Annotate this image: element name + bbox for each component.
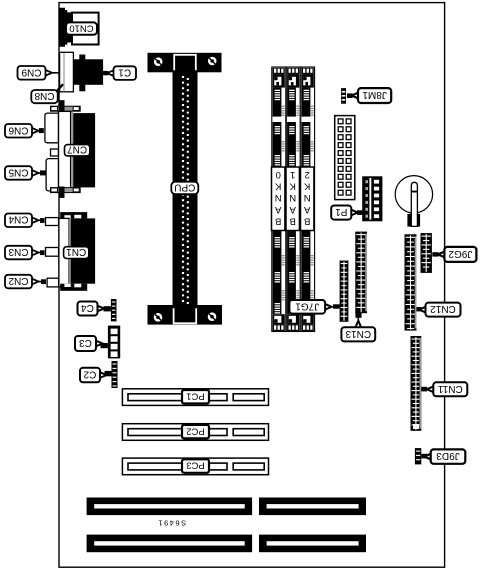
svg-text:J8M1: J8M1 — [362, 89, 387, 100]
label BANK 2 — [301, 167, 314, 231]
connector CN1 bottom bar — [60, 284, 87, 291]
svg-text:N: N — [304, 192, 311, 203]
svg-text:PC2: PC2 — [186, 425, 204, 436]
svg-text:N: N — [275, 192, 282, 203]
connector CN12 — [405, 234, 417, 330]
ISA slot segment 1 — [87, 498, 253, 516]
label C4 — [78, 302, 111, 316]
tab between D-subs — [51, 149, 59, 156]
label PC1 — [182, 390, 209, 404]
connector C3 — [108, 326, 120, 359]
label CN7 — [65, 145, 90, 156]
gray strip between SIMM slots — [300, 68, 301, 331]
power header grid connector — [335, 116, 355, 200]
connector CN7 assembly bottom bracket — [51, 188, 81, 193]
svg-text:C2: C2 — [83, 368, 96, 379]
jumper J8M1 block — [341, 88, 346, 104]
svg-text:N: N — [289, 192, 296, 203]
svg-text:A: A — [274, 204, 281, 215]
label PC3 — [182, 459, 209, 473]
connector CN7 bracket column — [59, 111, 71, 189]
svg-text:1: 1 — [290, 169, 295, 180]
svg-text:PC1: PC1 — [186, 390, 204, 401]
svg-text:J7G1: J7G1 — [295, 300, 319, 311]
svg-text:CN13: CN13 — [345, 328, 371, 339]
label CN5 — [5, 166, 46, 180]
battery circle — [395, 176, 432, 213]
connector CN13 — [355, 232, 367, 314]
svg-text:CN10: CN10 — [69, 22, 93, 33]
PCI slot PC1 — [122, 389, 268, 406]
label J8M1 — [347, 88, 391, 103]
label CN6 — [5, 124, 44, 138]
label CN11 — [421, 382, 467, 396]
label CN1 — [64, 247, 89, 259]
label J7G1 — [289, 300, 339, 314]
connector CN1 bracket column — [59, 218, 69, 287]
CPU slot bottom bracket screw holes — [154, 313, 163, 322]
connector J7G1 — [340, 261, 349, 322]
D-sub CN6 — [45, 113, 59, 143]
label P1 — [331, 206, 362, 220]
label CPU — [171, 182, 198, 195]
label BANK 1 — [286, 167, 299, 231]
svg-text:K: K — [289, 181, 296, 192]
svg-text:CN12: CN12 — [430, 303, 456, 314]
svg-text:CN6: CN6 — [8, 124, 28, 135]
label CN3 — [5, 246, 45, 259]
svg-text:C1: C1 — [118, 67, 131, 78]
label J9G2 — [432, 247, 476, 262]
board outline — [59, 3, 445, 568]
svg-text:B: B — [275, 215, 281, 226]
svg-text:0: 0 — [276, 169, 281, 180]
PCI slot PC2 — [122, 424, 268, 441]
connector CN7 assembly top bracket — [51, 106, 81, 111]
svg-text:CN11: CN11 — [437, 383, 462, 394]
svg-text:2: 2 — [305, 169, 310, 180]
svg-text:P1: P1 — [335, 206, 348, 217]
label CN4 — [5, 214, 45, 228]
svg-text:C4: C4 — [81, 302, 94, 313]
svg-text:CN4: CN4 — [8, 214, 28, 225]
ISA slot segment 2 — [259, 498, 366, 516]
tab CN2 — [47, 278, 59, 287]
CPU slot body — [173, 53, 198, 313]
CPU slot top bracket — [148, 53, 222, 73]
gray strip between SIMM slots — [285, 68, 286, 331]
svg-text:CN5: CN5 — [8, 167, 28, 178]
tab CN4 — [46, 218, 59, 226]
svg-text:S6491: S6491 — [157, 519, 186, 528]
svg-text:J9D3: J9D3 — [436, 450, 460, 461]
label C3 — [75, 336, 108, 351]
svg-text:B: B — [304, 215, 310, 226]
label PC2 — [182, 425, 209, 439]
SIMM slot BANK 2 — [301, 67, 315, 332]
svg-text:K: K — [274, 181, 281, 192]
connector J9D3 — [415, 448, 421, 464]
connector CN11 — [411, 336, 422, 431]
keyboard connector body — [60, 52, 74, 92]
battery stem — [407, 214, 420, 227]
battery pin — [411, 182, 417, 226]
keyboard connector black block C1 — [79, 55, 85, 60]
ISA slot segment 3 — [87, 535, 253, 553]
label CN9 — [18, 66, 60, 80]
svg-text:CPU: CPU — [174, 182, 195, 193]
svg-text:A: A — [303, 204, 310, 215]
label J9D3 — [421, 449, 465, 463]
label CN13 — [341, 313, 375, 342]
connector CN10 port block — [60, 8, 73, 47]
svg-text:CN2: CN2 — [8, 275, 28, 286]
connector CN1 black block — [71, 218, 95, 283]
SIMM slot BANK 1 — [286, 67, 300, 332]
svg-text:B: B — [290, 215, 296, 226]
label CN10 — [66, 22, 97, 34]
ISA slot segment 4 — [259, 535, 366, 553]
svg-text:A: A — [289, 204, 296, 215]
label C1 — [103, 66, 136, 80]
svg-text:CN9: CN9 — [21, 66, 41, 77]
connector CN10 body — [72, 13, 99, 45]
SIMM slot BANK 0 — [272, 67, 286, 332]
D-sub CN5 — [46, 159, 58, 191]
label CN2 — [5, 275, 46, 289]
connector P1 — [362, 176, 382, 221]
connector C2 — [112, 361, 118, 388]
svg-text:CN7: CN7 — [67, 144, 87, 155]
connector J9G2 — [421, 233, 432, 273]
connector CN7 black block — [73, 113, 95, 187]
label BANK 0 — [272, 167, 285, 231]
svg-text:C3: C3 — [79, 337, 92, 348]
tab CN3 — [46, 248, 59, 257]
svg-text:CN1: CN1 — [66, 246, 86, 257]
svg-text:CN8: CN8 — [34, 90, 54, 101]
CPU slot top bracket screw holes — [154, 57, 163, 66]
PCI slot PC3 — [122, 458, 268, 475]
connector CN1 top bar — [60, 212, 87, 218]
svg-text:K: K — [303, 181, 310, 192]
svg-text:PC3: PC3 — [186, 460, 204, 471]
svg-text:J9G2: J9G2 — [448, 248, 472, 259]
CPU slot bottom bracket — [148, 305, 223, 325]
label C2 — [80, 368, 112, 383]
connector C4 — [111, 299, 117, 321]
svg-text:CN3: CN3 — [8, 246, 28, 257]
label CN8 — [57, 84, 64, 91]
label CN12 — [417, 303, 461, 317]
